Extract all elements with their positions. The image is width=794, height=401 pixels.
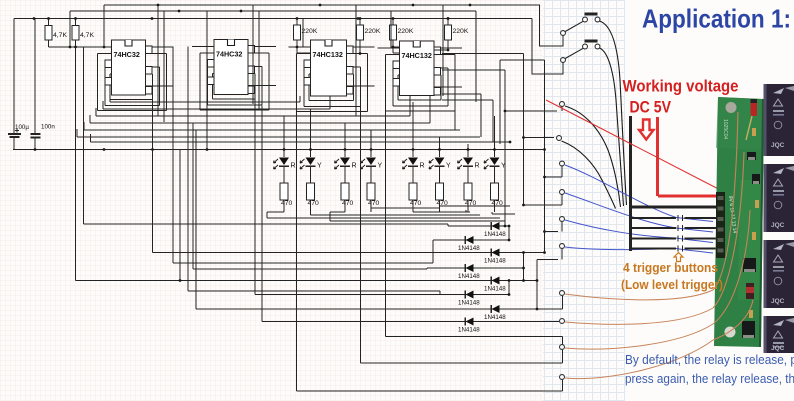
- svg-text:1N4148: 1N4148: [458, 245, 480, 252]
- svg-text:1N4148: 1N4148: [484, 231, 506, 238]
- svg-text:1025C04: 1025C04: [722, 119, 728, 140]
- svg-text:220K: 220K: [453, 28, 469, 35]
- svg-text:470: 470: [410, 200, 422, 207]
- svg-text:74HC132: 74HC132: [402, 51, 432, 60]
- svg-text:470: 470: [308, 200, 320, 207]
- svg-text:press again, the relay release: press again, the relay release, th: [625, 371, 794, 386]
- svg-text:1N4148: 1N4148: [458, 326, 480, 333]
- svg-text:220K: 220K: [398, 28, 414, 35]
- svg-text:R: R: [475, 163, 480, 170]
- svg-text:Working voltage: Working voltage: [623, 77, 739, 96]
- svg-text:4,7K: 4,7K: [80, 32, 94, 39]
- svg-text:470: 470: [368, 200, 380, 207]
- svg-text:470: 470: [281, 200, 293, 207]
- svg-text:DC 5V: DC 5V: [630, 99, 672, 117]
- svg-text:470: 470: [342, 200, 354, 207]
- svg-text:4,7K: 4,7K: [53, 32, 67, 39]
- svg-text:R: R: [291, 163, 296, 170]
- svg-text:JQC: JQC: [771, 345, 785, 352]
- svg-text:220K: 220K: [302, 28, 318, 35]
- svg-text:JQC: JQC: [771, 142, 785, 149]
- svg-text:1N4148: 1N4148: [484, 314, 506, 321]
- svg-text:Y: Y: [378, 163, 383, 170]
- svg-text:Application 1:: Application 1:: [642, 4, 791, 34]
- svg-text:By default, the relay is relea: By default, the relay is release, p: [625, 352, 794, 367]
- svg-text:100n: 100n: [41, 124, 55, 131]
- svg-text:JQC: JQC: [771, 298, 785, 305]
- svg-text:1N4148: 1N4148: [484, 285, 506, 292]
- svg-text:R: R: [420, 163, 425, 170]
- svg-text:JQC: JQC: [771, 222, 785, 229]
- svg-text:74HC132: 74HC132: [313, 50, 343, 59]
- svg-text:1N4148: 1N4148: [458, 273, 480, 280]
- svg-text:74HC32: 74HC32: [216, 50, 242, 59]
- svg-text:1N4148: 1N4148: [458, 299, 480, 306]
- svg-text:1N4148: 1N4148: [484, 257, 506, 264]
- svg-text:(Low level trigger): (Low level trigger): [621, 278, 723, 292]
- svg-text:220K: 220K: [365, 28, 381, 35]
- svg-text:100µ: 100µ: [15, 124, 29, 131]
- svg-text:4 trigger buttons: 4 trigger buttons: [623, 261, 718, 275]
- svg-text:Y: Y: [446, 163, 451, 170]
- svg-text:74HC32: 74HC32: [114, 50, 140, 59]
- svg-text:Y: Y: [317, 163, 322, 170]
- svg-text:R: R: [352, 163, 357, 170]
